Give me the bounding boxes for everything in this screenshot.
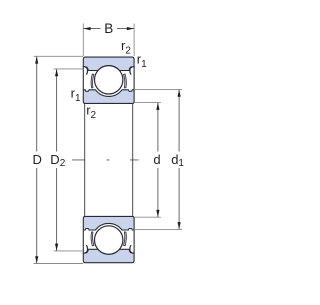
arrow D bottom bbox=[35, 256, 38, 263]
bore line left (connects inner rings) bbox=[84, 103, 86, 216]
extension line d1 bottom bbox=[134, 228, 182, 230]
inner ring (top section) bbox=[83, 90, 134, 104]
outer ring (top section) bbox=[83, 57, 134, 70]
extension line d1 top bbox=[134, 88, 182, 90]
arrow D2 bottom bbox=[55, 244, 58, 251]
extension line D bottom bbox=[34, 263, 84, 265]
dimension line d1 bbox=[178, 90, 180, 152]
dimension line D2 bbox=[56, 69, 58, 151]
face line left (bottom section) bbox=[82, 230, 84, 254]
shield anchor hook left (top section) bbox=[86, 67, 88, 74]
dimension line D bbox=[36, 57, 38, 152]
bore line right (connects inner rings) bbox=[132, 103, 134, 216]
extension line B left bbox=[82, 24, 84, 57]
extension line d top bbox=[134, 102, 161, 104]
shield plate right (bottom section) bbox=[124, 232, 127, 246]
arrow B right bbox=[127, 27, 134, 30]
svg-text:d: d bbox=[153, 152, 160, 167]
bottom half-section of bearing (mirror of top about y=159.9) bbox=[83, 216, 134, 262]
outer ring (bottom section) bbox=[83, 249, 134, 262]
face line right (through shield recess) bbox=[133, 66, 135, 90]
arrow d bottom bbox=[156, 210, 159, 217]
extension line d bottom bbox=[134, 216, 161, 218]
shield plate right (top section) bbox=[124, 74, 127, 88]
arrow d1 bottom bbox=[178, 222, 181, 229]
arrow B left bbox=[84, 27, 91, 30]
face line left (through shield recess) bbox=[82, 66, 84, 90]
extension line D2 top bbox=[54, 68, 84, 70]
shield anchor hook left (bottom section) bbox=[86, 246, 88, 253]
dimension line B bbox=[83, 28, 100, 30]
inner ring (bottom section) bbox=[83, 216, 134, 230]
shield anchor hook right (top section) bbox=[130, 67, 132, 74]
extension line D2 bottom bbox=[54, 250, 84, 252]
shield plate left (top section) bbox=[91, 74, 94, 88]
ball (bottom section) bbox=[95, 226, 123, 254]
svg-text:B: B bbox=[104, 21, 113, 36]
extension line D top bbox=[34, 55, 84, 57]
face line right (bottom section) bbox=[133, 230, 135, 254]
top half-section of bearing bbox=[83, 57, 134, 103]
arrow D2 top bbox=[55, 69, 58, 76]
centerline (dash-dot axis) bbox=[72, 159, 139, 161]
dimension line d bbox=[157, 103, 159, 152]
arrow d top bbox=[156, 103, 159, 110]
shield plate left (bottom section) bbox=[91, 232, 94, 246]
arrow D top bbox=[35, 57, 38, 64]
shield anchor hook right (bottom section) bbox=[130, 246, 132, 253]
ball (top section) bbox=[95, 66, 123, 94]
arrow d1 top bbox=[178, 90, 181, 97]
extension line B right bbox=[133, 24, 135, 57]
svg-text:D: D bbox=[33, 152, 42, 167]
